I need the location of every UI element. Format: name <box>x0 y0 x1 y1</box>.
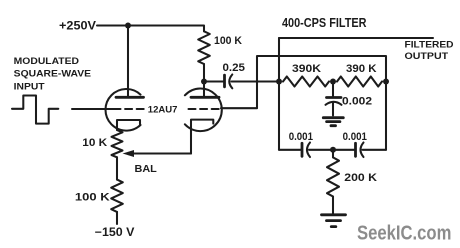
grid V1a (dashed) <box>114 108 146 110</box>
node twin-T middle (C branch) <box>330 147 336 153</box>
node filter input <box>276 79 282 85</box>
label MODULATED SQUARE-WAVE INPUT <box>14 56 91 92</box>
wire plate node to C1 <box>204 80 225 82</box>
wiper arrowhead <box>123 150 135 157</box>
wire bottom row mid-left <box>309 149 333 151</box>
svg-text:−150 V: −150 V <box>95 227 135 239</box>
wire plate lead V1a <box>127 26 129 98</box>
svg-text:FILTERED: FILTERED <box>405 40 454 51</box>
wiper wire (cathode V1b to pot) <box>131 152 191 154</box>
svg-text:400-CPS FILTER: 400-CPS FILTER <box>282 16 367 30</box>
svg-text:0.002: 0.002 <box>342 95 372 107</box>
svg-text:100 K: 100 K <box>75 192 110 204</box>
resistor 200K <box>327 157 339 196</box>
node plate V1b / coupling <box>201 79 207 85</box>
svg-text:12AU7: 12AU7 <box>148 105 178 116</box>
wire C1 to filter input node <box>232 80 280 82</box>
svg-text:0.001: 0.001 <box>343 131 367 143</box>
svg-text:10 K: 10 K <box>82 137 107 149</box>
wire 200K bottom lead <box>332 197 334 215</box>
svg-text:SeekIC.com: SeekIC.com <box>357 223 451 245</box>
resistor 390K (first) <box>283 77 329 87</box>
tube 12AU7 V1b envelope <box>185 89 222 132</box>
ground (200K) <box>322 215 346 227</box>
wire 0.002 top lead <box>332 82 334 98</box>
svg-text:0.001: 0.001 <box>289 131 313 143</box>
wire 0.002 bottom lead <box>332 102 334 115</box>
wire 100K bottom to plate node <box>203 64 205 82</box>
svg-text:+250V: +250V <box>59 21 96 33</box>
svg-text:390 K: 390 K <box>346 63 377 75</box>
cathode V1b <box>191 120 213 154</box>
svg-text:200 K: 200 K <box>344 172 377 184</box>
potentiometer 10K <box>112 130 123 157</box>
tube 12AU7 V1a envelope <box>106 89 141 131</box>
plate V1b <box>191 96 219 99</box>
wire plate lead V1b <box>203 82 205 98</box>
wire twin-T bottom row left <box>279 149 302 151</box>
label FILTERED OUTPUT <box>405 40 454 63</box>
wire feedback path (filter output to grid V1b) <box>221 56 386 150</box>
capacitor C2 0.002 <box>326 98 342 105</box>
svg-text:SQUARE-WAVE: SQUARE-WAVE <box>14 69 91 80</box>
wire pot to 100K <box>116 157 118 179</box>
wire +250V rail <box>97 26 204 32</box>
ground (0.002) <box>323 118 343 126</box>
node plate V1a to +250V rail <box>125 23 131 29</box>
svg-text:INPUT: INPUT <box>14 81 45 92</box>
wire input to grid V1a <box>72 108 114 110</box>
square-wave input symbol <box>12 96 58 124</box>
wire 100K to -150V <box>116 212 118 224</box>
grid V1b (dashed) <box>189 108 221 110</box>
svg-text:BAL: BAL <box>135 163 158 175</box>
capacitor C1 0.25 <box>225 75 233 89</box>
wire bottom row right <box>363 149 387 151</box>
plate V1a <box>116 96 144 99</box>
wire filtered output tap <box>279 37 433 39</box>
resistor 100K (plate load) <box>198 31 210 64</box>
svg-text:0.25: 0.25 <box>223 62 246 74</box>
capacitor C3 0.001 (left) <box>302 143 310 158</box>
svg-text:100 K: 100 K <box>214 35 242 47</box>
resistor 100K (cathode bias) <box>111 180 123 212</box>
wire filter input riser <box>278 38 280 150</box>
resistor 390K (second) <box>337 77 382 87</box>
wire 200K top lead <box>332 150 334 158</box>
capacitor C4 0.001 (right) <box>356 143 364 158</box>
node filter output <box>383 79 389 85</box>
wire bottom row mid-right <box>333 149 356 151</box>
node twin-T middle (R branch) <box>330 79 336 85</box>
svg-text:MODULATED: MODULATED <box>14 56 79 67</box>
cathode V1a <box>117 120 140 130</box>
svg-text:390K: 390K <box>292 63 321 75</box>
svg-text:OUTPUT: OUTPUT <box>405 51 449 62</box>
